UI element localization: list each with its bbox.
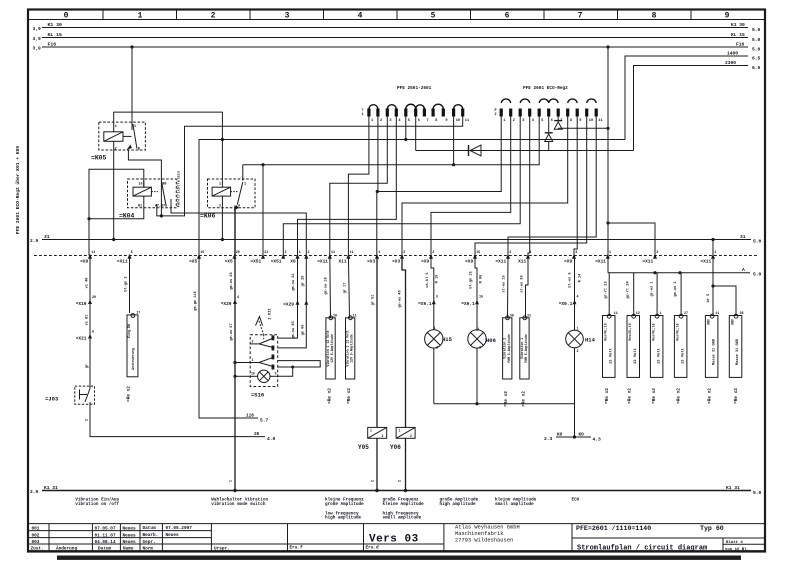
svg-text:27: 27 <box>684 312 688 316</box>
connector pin X6:1 <box>290 251 300 264</box>
svg-text:ge-sw 45: ge-sw 45 <box>292 321 296 338</box>
connector pin =X3:1 <box>367 251 380 264</box>
svg-text:Zust.: Zust. <box>31 547 44 552</box>
svg-text:=X9: =X9 <box>80 258 88 264</box>
module Res RL 12Volt 1 <box>603 314 616 377</box>
svg-text:gr-rt 23: gr-rt 23 <box>604 281 609 298</box>
svg-text:11: 11 <box>465 119 469 123</box>
relay K05 <box>99 122 146 151</box>
svg-text:003: 003 <box>32 540 40 545</box>
svg-text:H14: H14 <box>585 337 596 344</box>
svg-text:Änderung: Änderung <box>56 547 77 552</box>
svg-text:Vers 03: Vers 03 <box>369 534 419 546</box>
svg-text:1: 1 <box>577 328 579 332</box>
svg-text:Res=RL;10: Res=RL;10 <box>651 323 655 340</box>
module Res RL 12Volt 3 <box>650 314 663 377</box>
svg-text:K1 31: K1 31 <box>726 485 740 491</box>
svg-text:4.3: 4.3 <box>593 437 602 443</box>
svg-text:1: 1 <box>299 251 301 255</box>
svg-text:11: 11 <box>598 119 602 123</box>
svg-text:3: 3 <box>432 251 434 255</box>
svg-text:=X5: =X5 <box>189 258 197 264</box>
node F16 tap right <box>606 45 609 48</box>
wire label vi 81 <box>85 315 90 326</box>
svg-text:1: 1 <box>378 251 380 255</box>
svg-text:1: 1 <box>609 251 611 255</box>
svg-text:Masse 31 GND: Masse 31 GND <box>736 338 740 365</box>
svg-text:=X11: =X11 <box>700 258 711 264</box>
connector pin :2 <box>304 251 309 259</box>
svg-text:04.08.14: 04.08.14 <box>95 540 116 545</box>
wire K05 coil to 31 rail <box>112 151 115 241</box>
svg-text:=X9.1: =X9.1 <box>461 301 475 307</box>
bottom scan shadow bar <box>57 556 741 560</box>
svg-text:gr 17: gr 17 <box>343 283 348 294</box>
svg-text:5: 5 <box>408 119 410 123</box>
S16 actuator mark <box>256 317 264 335</box>
svg-text:small amplitude: small amplitude <box>383 516 422 521</box>
svg-text:0: 0 <box>64 12 69 21</box>
svg-text:7: 7 <box>427 119 429 123</box>
wire row1 pin5 to X9:3 <box>404 117 407 142</box>
connector pin =X51:2 <box>271 251 287 264</box>
svg-text:11: 11 <box>350 251 354 255</box>
svg-text:Norm: Norm <box>143 547 154 552</box>
svg-text:vibration mode switch: vibration mode switch <box>211 502 266 507</box>
svg-text:bl-gn 3: bl-gn 3 <box>124 276 129 291</box>
svg-text:5.0: 5.0 <box>753 272 762 278</box>
svg-text:=X21: =X21 <box>76 335 87 341</box>
wire A-rail drop 2 <box>626 273 634 316</box>
svg-text:=Re x2: =Re x2 <box>521 391 526 407</box>
svg-text:Fahrtrichtrelais: Fahrtrichtrelais <box>177 170 182 207</box>
svg-text:st-ws 15: st-ws 15 <box>503 275 507 292</box>
valve Y06 <box>399 256 406 428</box>
svg-text:Neues: Neues <box>123 533 137 538</box>
svg-text:4: 4 <box>529 251 531 255</box>
svg-text:5.0: 5.0 <box>753 239 762 245</box>
lamp H06 <box>468 330 486 348</box>
svg-text:10: 10 <box>456 119 460 123</box>
svg-text:12 Volt: 12 Volt <box>657 348 662 364</box>
svg-text:Atlas Weyhausen GmbH: Atlas Weyhausen GmbH <box>455 525 520 531</box>
net KO exits <box>544 433 601 443</box>
wire label ge-sw 21 <box>292 273 296 290</box>
svg-text:9: 9 <box>445 119 447 123</box>
connector PFE 2601 ECO-Reg2 <box>495 86 603 123</box>
svg-text:2: 2 <box>219 205 221 209</box>
svg-text:5.0: 5.0 <box>752 47 761 53</box>
svg-text:K1 30: K1 30 <box>731 22 745 28</box>
wire row2 pin3 to X51 <box>283 117 520 256</box>
svg-text:=X11: =X11 <box>117 258 128 264</box>
svg-text:PFE 2501-2601: PFE 2501-2601 <box>397 86 432 91</box>
svg-text:H1: H1 <box>138 205 142 209</box>
svg-text:2: 2 <box>495 113 497 117</box>
svg-text:PWM D-Amplitude: PWM D-Amplitude <box>507 334 511 363</box>
connector pin =X11:1 <box>700 251 716 264</box>
svg-text:15: 15 <box>200 251 204 255</box>
svg-text:=X11: =X11 <box>317 258 328 264</box>
svg-text:07.05.2007: 07.05.2007 <box>166 526 193 531</box>
svg-text:8: 8 <box>570 119 572 123</box>
svg-text:=X51: =X51 <box>271 258 282 264</box>
wire A-rail drop 1 <box>604 273 610 316</box>
wire Y06 to K1 31 <box>399 438 408 492</box>
svg-text:K1 30: K1 30 <box>48 22 63 28</box>
svg-text:9: 9 <box>579 119 581 123</box>
connector pin =X11:5 <box>117 251 133 264</box>
svg-text:=X3: =X3 <box>367 258 375 264</box>
svg-text:Y05: Y05 <box>358 444 369 451</box>
connector pin =X29 c <box>304 300 308 305</box>
connector pin =X9:4 <box>564 251 577 264</box>
wire K06 coil to 31 rail <box>221 208 224 241</box>
svg-text:21: 21 <box>264 251 268 255</box>
svg-text:9: 9 <box>725 12 730 21</box>
svg-text:Blatt 4: Blatt 4 <box>726 540 743 545</box>
wire diode V3 to F16 drop <box>558 127 609 130</box>
module Masse 31 GND a <box>705 314 718 377</box>
svg-text:6: 6 <box>551 119 553 123</box>
svg-text:KL 15: KL 15 <box>48 32 63 38</box>
svg-text:=Re x2: =Re x2 <box>652 388 657 404</box>
svg-text:7: 7 <box>578 12 583 21</box>
svg-text:1: 1 <box>230 480 234 482</box>
svg-text:st-ws 36: st-ws 36 <box>521 275 525 292</box>
svg-text:=X5: =X5 <box>225 258 233 264</box>
wire row1 pin2 onto X3:1 feed <box>376 117 379 194</box>
svg-text:002: 002 <box>32 533 40 538</box>
svg-text:Ers.f: Ers.f <box>290 546 304 551</box>
svg-text:Neues: Neues <box>166 533 180 538</box>
svg-text:ge-ws 67: ge-ws 67 <box>230 323 234 340</box>
svg-text:1: 1 <box>115 125 117 129</box>
wire X11:3 column <box>503 256 509 318</box>
svg-text:=Re x2: =Re x2 <box>347 388 352 404</box>
svg-text:Neues: Neues <box>123 540 137 545</box>
svg-text:H06: H06 <box>486 337 496 344</box>
wire K06 contact to X5:20 <box>234 206 236 256</box>
svg-text:1: 1 <box>478 328 480 332</box>
svg-text:2.9: 2.9 <box>30 238 39 244</box>
svg-text:=K06: =K06 <box>200 213 216 220</box>
wire S16 contact loop <box>278 361 321 369</box>
svg-text:high amplitude: high amplitude <box>440 502 477 507</box>
wire F16 down to X11 pin and A-rail <box>607 47 609 273</box>
title block text <box>31 526 750 552</box>
wire K05 contact A run <box>128 150 163 217</box>
svg-text:3: 3 <box>252 340 254 344</box>
svg-text:1: 1 <box>503 119 505 123</box>
wire A-rail drop 3 <box>649 273 657 316</box>
svg-text:2: 2 <box>436 346 438 350</box>
svg-text:4.0: 4.0 <box>267 436 276 442</box>
svg-text:KO: KO <box>579 433 585 438</box>
svg-text:high amplitude: high amplitude <box>325 516 362 521</box>
svg-text:3: 3 <box>656 251 658 255</box>
connector pin =X51:21 <box>250 251 268 264</box>
wire X5:20 column <box>230 256 237 493</box>
svg-text:F16: F16 <box>48 41 57 47</box>
valve Y05 <box>371 256 378 428</box>
svg-text:Typ 60: Typ 60 <box>700 525 724 532</box>
svg-text:große Amplitude: große Amplitude <box>325 502 364 507</box>
svg-text:gr: gr <box>85 364 90 368</box>
diode V3 row2 pin7 <box>554 117 562 130</box>
connector pin =X9:11 <box>80 251 95 264</box>
svg-text:12 Volt: 12 Volt <box>609 348 614 364</box>
connector pin =X9.1 <box>418 296 438 308</box>
svg-text:20: 20 <box>92 296 96 300</box>
relay K06 <box>208 179 256 211</box>
svg-text:ws-bl 5: ws-bl 5 <box>425 272 430 287</box>
svg-text:von 16 Bl.: von 16 Bl. <box>725 547 749 552</box>
svg-text:2300: 2300 <box>725 60 736 66</box>
svg-text:Neues: Neues <box>123 526 137 531</box>
svg-text:vi 40: vi 40 <box>85 278 90 289</box>
switch S16 <box>250 335 278 387</box>
connector pin =X5:15 <box>189 251 204 264</box>
svg-text:2: 2 <box>308 251 310 255</box>
svg-text:4: 4 <box>358 12 363 21</box>
svg-text:6.5: 6.5 <box>752 56 761 62</box>
connector pin =X11:11 <box>317 251 335 264</box>
wire K04 coil feed to X9 column <box>87 169 143 255</box>
wire X11:5 column <box>124 256 130 314</box>
svg-text:R 14: R 14 <box>579 273 583 282</box>
svg-text:2: 2 <box>479 346 481 350</box>
svg-text:1: 1 <box>399 428 401 432</box>
module Res RL 12Volt 4 <box>674 314 687 377</box>
svg-text:Datum: Datum <box>98 547 112 552</box>
svg-text:11: 11 <box>614 312 618 316</box>
svg-text:vi 81: vi 81 <box>85 315 90 326</box>
svg-text:br 5: br 5 <box>706 294 711 303</box>
svg-text:=X9: =X9 <box>465 258 473 264</box>
module Vibration 1 12V <box>326 316 335 379</box>
module Res RL 12Volt 2 <box>627 314 640 377</box>
svg-text:PWM E-Amplitude: PWM E-Amplitude <box>524 334 528 363</box>
wire S16 lamp to loop <box>278 367 293 376</box>
svg-text:3: 3 <box>509 251 511 255</box>
svg-text:1: 1 <box>362 113 364 117</box>
svg-text:2: 2 <box>399 480 403 482</box>
svg-text:8: 8 <box>652 12 657 21</box>
svg-text:ECO: ECO <box>572 498 580 503</box>
svg-text:Y06: Y06 <box>390 444 401 451</box>
svg-text:4: 4 <box>577 296 579 300</box>
svg-text:=Re x2: =Re x2 <box>605 388 610 404</box>
svg-text:16: 16 <box>139 183 143 187</box>
svg-text:3,9: 3,9 <box>33 36 42 42</box>
svg-text:116: 116 <box>246 414 254 419</box>
svg-text:ge-ws 2: ge-ws 2 <box>674 281 678 296</box>
svg-text:Res=RL;10: Res=RL;10 <box>675 323 679 340</box>
rail 31 <box>30 234 762 245</box>
svg-text:bl-ws 6: bl-ws 6 <box>568 272 573 287</box>
svg-text:11: 11 <box>715 312 719 316</box>
svg-text:3,9: 3,9 <box>33 26 42 32</box>
svg-text:4: 4 <box>575 251 577 255</box>
wire X9:3 column <box>425 256 440 330</box>
svg-text:K1 31: K1 31 <box>44 485 58 491</box>
wire X6:2 column to S16 <box>278 256 307 348</box>
svg-text:=Re x2: =Re x2 <box>127 386 132 402</box>
wire X11:11b column <box>343 256 350 318</box>
svg-text:12 Volt: 12 Volt <box>681 348 686 364</box>
drawing title <box>576 525 724 552</box>
svg-text:2: 2 <box>577 350 579 354</box>
svg-text:=X51: =X51 <box>250 258 261 264</box>
wire row2 pin8 to X11:4 <box>402 117 568 256</box>
svg-text:ge-sw 21: ge-sw 21 <box>292 273 296 290</box>
svg-text:=X9: =X9 <box>421 258 429 264</box>
connector PFE 2501-2601 <box>362 86 470 123</box>
caption ECO <box>572 498 580 503</box>
svg-text:28: 28 <box>740 312 744 316</box>
svg-text:=X9: =X9 <box>564 258 572 264</box>
svg-text:2: 2 <box>403 251 405 255</box>
svg-text:=Re x2: =Re x2 <box>328 388 333 404</box>
wire row1 pin4 to X6:1 <box>298 117 397 256</box>
svg-text:=X29: =X29 <box>221 301 232 307</box>
wire K04 contact to X6:2 <box>171 204 306 255</box>
wire L3 X5:15 to 1400 <box>199 140 625 256</box>
svg-text:10: 10 <box>251 372 255 376</box>
svg-text:GND: GND <box>707 319 711 325</box>
module Masse 31 GND b <box>729 314 742 377</box>
svg-text:X11: X11 <box>338 258 346 264</box>
svg-text:2: 2 <box>372 480 376 482</box>
svg-text:6.5: 6.5 <box>752 65 761 71</box>
wire X9:11 column <box>89 256 91 386</box>
svg-text:Stromlaufplan / circuit diagra: Stromlaufplan / circuit diagram <box>577 544 707 552</box>
svg-text:5.0: 5.0 <box>752 27 761 33</box>
svg-text:1: 1 <box>434 327 436 331</box>
wire X11:1 column to GND boxes <box>706 240 736 316</box>
svg-text:=Re x2: =Re x2 <box>676 388 681 404</box>
svg-text:20: 20 <box>236 251 240 255</box>
svg-text:PFE 2601 ECO-Reg2: PFE 2601 ECO-Reg2 <box>523 86 568 91</box>
svg-text:R 06: R 06 <box>480 275 484 284</box>
svg-text:8: 8 <box>435 119 437 123</box>
switch J03 <box>75 385 95 405</box>
wire row2 pin1 to X3:1 <box>377 117 501 256</box>
svg-text:Maschinenfabrik: Maschinenfabrik <box>455 531 504 537</box>
svg-text:1: 1 <box>244 183 246 187</box>
wire X9:4 column <box>568 256 583 331</box>
svg-text:B6: B6 <box>163 183 167 187</box>
svg-text:A: A <box>742 267 745 273</box>
svg-text:5.7: 5.7 <box>260 418 269 424</box>
svg-text:vibration on /off: vibration on /off <box>75 502 119 507</box>
svg-text:ge 66: ge 66 <box>302 325 306 336</box>
caption high amplitude <box>440 498 479 507</box>
svg-text:01.11.07: 01.11.07 <box>95 533 116 538</box>
svg-text:17: 17 <box>136 312 140 316</box>
svg-text:Gepr.: Gepr. <box>143 540 156 545</box>
relay K04 function label <box>177 170 182 207</box>
connector pin =X9.1 <box>461 296 483 308</box>
module Vibration 1 PWM <box>520 316 529 379</box>
svg-text:KL 15: KL 15 <box>731 32 745 38</box>
svg-text:3: 3 <box>285 12 290 21</box>
wire F16 to K05 contact <box>131 47 133 130</box>
svg-text:H15: H15 <box>442 336 453 343</box>
svg-text:27793 Wildeshausen: 27793 Wildeshausen <box>455 538 513 544</box>
svg-text:6: 6 <box>505 12 510 21</box>
dashed bulkhead line <box>34 255 757 257</box>
svg-text:X11: X11 <box>518 258 526 264</box>
svg-text:1: 1 <box>370 428 372 432</box>
wire row2 pin10 to X9:15 <box>475 117 587 256</box>
connector pin X11:11 <box>338 251 353 264</box>
svg-text:PFE=2601 /1110=1140: PFE=2601 /1110=1140 <box>576 525 651 532</box>
svg-text:Res=RL;10: Res=RL;10 <box>604 323 608 340</box>
connector pin =X3:2 <box>392 251 405 264</box>
svg-text:9: 9 <box>275 372 277 376</box>
diode V2 row2 pin6 <box>545 117 553 151</box>
caption vibration mode switch <box>211 498 268 507</box>
wire J03 to 2K exit <box>86 404 276 442</box>
svg-text:12V D-Amplitude: 12V D-Amplitude <box>350 334 354 363</box>
wire label ge-sw 45 <box>292 321 296 338</box>
svg-text:07.05.07: 07.05.07 <box>95 526 116 531</box>
svg-text:31: 31 <box>740 234 746 240</box>
svg-text:5.0: 5.0 <box>752 37 761 43</box>
wire L5 row1 pin2 to K06 contact <box>243 117 539 167</box>
svg-text:small amplitude: small amplitude <box>495 502 534 507</box>
svg-text:3: 3 <box>436 296 438 300</box>
wire H06 to lamp rail <box>475 348 478 405</box>
node F16 tap left <box>130 45 133 48</box>
svg-text:I OII: I OII <box>269 308 273 319</box>
svg-text:15: 15 <box>479 296 483 300</box>
diode V1 on 2300 line <box>416 117 634 157</box>
svg-text:12: 12 <box>636 312 640 316</box>
wire branch to X11:3 <box>606 221 655 255</box>
svg-text:1: 1 <box>138 12 143 21</box>
svg-text:Res=RL;10: Res=RL;10 <box>628 323 632 340</box>
svg-text:2: 2 <box>380 119 382 123</box>
input module Eing.DW Ansteuerung <box>127 314 138 377</box>
lamp H15 <box>425 330 443 348</box>
svg-text:2: 2 <box>86 419 90 421</box>
svg-text:1: 1 <box>219 183 221 187</box>
svg-text:gr-ws 1: gr-ws 1 <box>649 281 654 296</box>
rail A <box>608 267 762 278</box>
svg-text:10: 10 <box>589 119 593 123</box>
caption low frequency <box>325 498 364 521</box>
svg-text:Ansteuerung: Ansteuerung <box>131 348 135 370</box>
wire row2 pin2 to X9:3 <box>431 117 511 256</box>
svg-text:11: 11 <box>331 251 335 255</box>
svg-text:3: 3 <box>389 119 391 123</box>
svg-text:R 15: R 15 <box>436 275 440 284</box>
svg-text:Ers.d: Ers.d <box>366 546 380 551</box>
connector pin =X9:3 <box>421 251 434 264</box>
svg-text:5: 5 <box>92 331 94 335</box>
wire label gr <box>85 364 90 368</box>
svg-text:PFE 2601 ECO-Reg2 über K01 + K: PFE 2601 ECO-Reg2 über K01 + K05 <box>15 146 21 234</box>
connector pin =X21 <box>76 331 94 342</box>
wire S16 left feeds <box>235 363 250 377</box>
svg-text:=J03: =J03 <box>45 396 59 403</box>
svg-text:5: 5 <box>131 251 133 255</box>
svg-text:2: 2 <box>115 148 117 152</box>
svg-text:ge-gn 116: ge-gn 116 <box>194 291 198 310</box>
